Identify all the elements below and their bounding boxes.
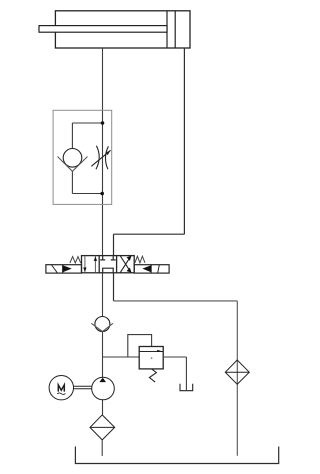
DV1 right box crossed arrows <box>120 256 131 273</box>
wire: relief valve drain right <box>163 356 186 358</box>
relief valve RV1 inner arrowhead <box>157 350 163 352</box>
relief valve RV1 center dot <box>151 357 153 359</box>
check valve CV2 circle <box>95 317 110 332</box>
DV1 left spring <box>70 257 81 264</box>
wire: cylinder left port down to valve port A (main A line) <box>102 48 104 256</box>
check valve CV1 (bypass) circle <box>63 149 82 168</box>
throttle valve TH1 adjustment arrow <box>91 150 110 166</box>
DV1 left box flow arrow down <box>84 256 86 273</box>
DV1 center box blocked port A <box>100 256 105 260</box>
wire: FC1 branch bottom horizontal <box>72 193 102 195</box>
wire: relief drain down <box>185 357 187 390</box>
cylinder C1 body <box>55 11 190 48</box>
tank T1 (main reservoir) <box>75 447 278 464</box>
wire: relief pilot loop <box>128 335 152 357</box>
throttle valve TH1 arcs <box>96 146 108 169</box>
electric motor M1 circle <box>49 376 73 400</box>
pump P1 circle <box>92 377 115 400</box>
wire: T return vertical to tank <box>236 301 238 456</box>
wire: FC1 branch top horizontal <box>72 122 102 124</box>
DV1 center box P-T bypass U <box>103 268 114 273</box>
flow control valve FC1 enclosure box <box>53 110 112 204</box>
cylinder C1 rod <box>39 26 167 33</box>
wire: cylinder right port down <box>183 48 185 234</box>
relief valve RV1 spring <box>149 369 156 382</box>
pump P1 output triangle <box>99 378 106 383</box>
DV1 right solenoid box <box>134 265 169 273</box>
DV1 left solenoid slash <box>52 265 58 273</box>
relief valve RV1 inner arrow line <box>139 351 163 353</box>
DV1 right spring <box>135 256 145 263</box>
wire: horizontal B line <box>114 233 185 235</box>
directional valve DV1 position boxes <box>82 256 135 273</box>
DV1 right solenoid triangle <box>142 265 151 272</box>
wire: relief valve input line <box>103 356 140 358</box>
suction filter F1 diamond <box>90 415 115 440</box>
relief valve RV1 body <box>139 347 163 369</box>
DV1 left solenoid box <box>46 265 82 273</box>
check valve CV2 seat <box>91 323 113 331</box>
tank T2 (relief drain tank) <box>180 384 193 391</box>
wire: P line valve to check valve <box>102 273 104 317</box>
coupling shaft between motor and pump <box>74 386 92 389</box>
return filter F2 diamond <box>225 360 249 384</box>
check valve CV1 seat <box>58 157 88 172</box>
wire: suction pipe into tank <box>101 440 103 456</box>
DV1 right solenoid slash <box>158 265 160 273</box>
cylinder C1 piston <box>167 11 175 48</box>
wire: pump suction line <box>102 400 104 415</box>
DV1 left solenoid triangle <box>63 265 72 272</box>
node: junction dot bottom <box>100 192 104 196</box>
wire: T return horizontal <box>114 300 238 302</box>
wire: T return line down from valve <box>113 273 115 301</box>
wire: FC1 branch left vertical upper <box>71 123 73 149</box>
motor M1 letter M <box>58 385 64 392</box>
node: junction dot top <box>101 121 105 125</box>
wire: FC1 branch left vertical lower <box>71 171 73 193</box>
DV1 center box blocked port B <box>111 256 116 260</box>
DV1 left box flow arrow up <box>94 256 96 273</box>
motor M1 tilde <box>57 393 65 395</box>
wire: B line down to valve port B <box>113 234 115 255</box>
wire: P line check valve to pump <box>102 332 104 378</box>
